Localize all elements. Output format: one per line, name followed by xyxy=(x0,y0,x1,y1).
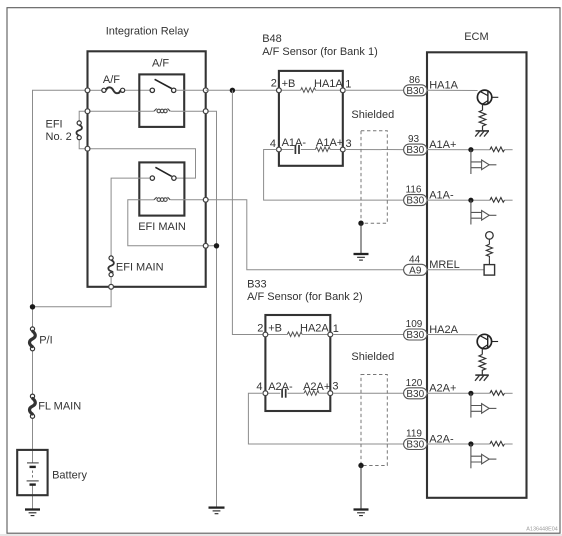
wire B48 pin1 to ECM 86 xyxy=(345,89,404,91)
terminal 120 B30 xyxy=(404,378,457,400)
buffer A2A+ xyxy=(471,393,497,417)
svg-text:B48: B48 xyxy=(262,33,282,45)
shield dashed box bank2 xyxy=(361,375,387,466)
wire A/F fuse row xyxy=(88,89,102,91)
ECM A2A- input wire xyxy=(427,443,490,445)
svg-text:B30: B30 xyxy=(406,145,424,156)
coil EFI MAIN relay xyxy=(154,197,170,201)
svg-text:4: 4 xyxy=(270,138,276,150)
terminal 116 B30 xyxy=(404,185,454,207)
svg-text:+B: +B xyxy=(268,322,282,334)
fuse P/I xyxy=(29,327,35,351)
svg-text:A1A-: A1A- xyxy=(429,189,454,201)
junction A1A- dot xyxy=(468,198,473,203)
wire coil to ground drop xyxy=(206,111,217,246)
svg-text:109: 109 xyxy=(406,319,423,330)
wire B48 pin3 to ECM 93 xyxy=(345,149,404,151)
pin circles B33 xyxy=(263,332,268,337)
buffer A1A- xyxy=(471,200,497,224)
svg-text:HA2A: HA2A xyxy=(300,322,329,334)
bottom scan strip xyxy=(0,534,562,536)
fuse EFI No.2 branch xyxy=(79,111,87,121)
svg-text:B33: B33 xyxy=(247,278,267,290)
wire +B row to B48 pin2 xyxy=(206,89,277,91)
wire B33 pin1 to ECM 109 xyxy=(333,334,404,336)
terminal 109 B30 xyxy=(404,319,459,341)
svg-text:HA1A: HA1A xyxy=(314,78,343,90)
junction A1A+ dot xyxy=(468,147,473,152)
node circles on relay box edges xyxy=(85,88,90,93)
resistor A1A- xyxy=(490,198,505,203)
junction A2A+ dot xyxy=(468,391,473,396)
svg-text:B30: B30 xyxy=(406,86,424,97)
ECM A1A- input wire xyxy=(427,199,490,201)
terminal 119 B30 xyxy=(404,429,454,451)
wire switch to node xyxy=(176,89,206,91)
svg-text:B30: B30 xyxy=(406,440,424,451)
wire EFI MAIN coil row xyxy=(139,199,154,201)
svg-text:A/F Sensor (for Bank 2): A/F Sensor (for Bank 2) xyxy=(247,291,363,303)
wire FL MAIN to battery xyxy=(32,418,34,463)
resistor HA2A pulldown xyxy=(479,349,486,375)
junction battery node xyxy=(30,304,35,309)
capacitor B48 xyxy=(295,145,299,154)
resistor B48 sense xyxy=(315,147,330,152)
svg-text:A/F: A/F xyxy=(152,58,169,70)
svg-text:A1A+: A1A+ xyxy=(429,139,456,151)
svg-text:4: 4 xyxy=(256,381,262,393)
terminal 93 B30 xyxy=(404,134,457,156)
svg-text:3: 3 xyxy=(332,380,338,392)
junction shield1 dot xyxy=(358,221,363,226)
svg-text:A136448E04: A136448E04 xyxy=(526,526,558,532)
svg-text:A2A-: A2A- xyxy=(268,381,293,393)
wire MREL to driver xyxy=(427,269,484,271)
wire coil to MREL xyxy=(170,200,403,270)
wire shield2 to ground xyxy=(360,466,362,510)
MREL driver xyxy=(484,232,495,276)
ground battery xyxy=(25,510,40,516)
wire fuse to box edge xyxy=(110,277,112,287)
pin circles B48 xyxy=(277,88,282,93)
svg-text:P/I: P/I xyxy=(39,335,52,347)
ECM box xyxy=(427,52,527,498)
junction shield2 dot xyxy=(358,463,363,468)
wire relay coil row xyxy=(88,110,155,112)
terminal 44 A9 xyxy=(404,254,460,276)
svg-text:1: 1 xyxy=(345,78,351,90)
svg-text:3: 3 xyxy=(346,138,352,150)
svg-text:A1A+: A1A+ xyxy=(316,137,343,149)
svg-text:ECM: ECM xyxy=(464,31,488,43)
wire EFI MAIN fuse return to battery node xyxy=(33,287,112,307)
coil A/F relay xyxy=(154,109,170,113)
fuse FL MAIN xyxy=(29,394,35,418)
resistor B33 sense xyxy=(304,391,319,396)
svg-text:2: 2 xyxy=(257,322,263,334)
Integration Relay box xyxy=(88,51,206,286)
transistor HA2A xyxy=(477,334,498,348)
chassis ground HA2A xyxy=(475,375,489,381)
svg-text:Integration Relay: Integration Relay xyxy=(106,26,190,38)
svg-text:A/F Sensor (for Bank 1): A/F Sensor (for Bank 1) xyxy=(262,46,378,58)
svg-text:119: 119 xyxy=(406,429,422,440)
svg-text:EFI: EFI xyxy=(46,119,63,131)
svg-text:Shielded: Shielded xyxy=(351,351,394,363)
wire EFI No2 row to EFI MAIN switch xyxy=(88,149,196,178)
svg-text:Shielded: Shielded xyxy=(351,109,394,121)
svg-text:B30: B30 xyxy=(406,389,424,400)
fuse EFI MAIN xyxy=(108,256,113,277)
wire battery to ground xyxy=(32,484,34,509)
ECM HA1A driver wire xyxy=(427,89,478,91)
svg-text:1: 1 xyxy=(333,323,339,335)
svg-text:B30: B30 xyxy=(406,330,424,341)
resistor A1A+ xyxy=(490,147,505,152)
wire P/I to FL MAIN xyxy=(32,351,34,395)
ECM HA2A driver wire xyxy=(427,334,477,336)
fuse A/F xyxy=(102,87,125,93)
buffer A2A- xyxy=(471,444,497,468)
junction A2A- dot xyxy=(468,441,473,446)
svg-text:A1A-: A1A- xyxy=(282,137,307,149)
sensor B33 box xyxy=(265,315,330,411)
resistor A2A- xyxy=(490,441,505,446)
resistor HA1A pulldown xyxy=(479,105,486,131)
resistor A2A+ xyxy=(490,391,505,396)
chassis ground HA1A xyxy=(475,131,489,137)
ground relay return xyxy=(209,508,225,514)
ECM A2A+ input wire xyxy=(427,392,490,394)
svg-text:A/F: A/F xyxy=(103,74,120,86)
svg-text:2: 2 xyxy=(271,78,277,90)
wire shield1 to ground xyxy=(360,223,362,254)
svg-text:HA2A: HA2A xyxy=(429,324,458,336)
wire EFI MAIN switch to fuse xyxy=(111,178,150,256)
ECM A1A+ input wire xyxy=(427,149,490,151)
terminal 86 B30 xyxy=(404,75,459,97)
svg-text:EFI MAIN: EFI MAIN xyxy=(138,221,186,233)
junction +B dot xyxy=(230,88,235,93)
relay A/F xyxy=(139,74,184,127)
wire B48 pin4 to ECM 116 xyxy=(264,150,404,201)
wire battery feed riser xyxy=(33,90,88,327)
svg-text:Battery: Battery xyxy=(52,469,87,481)
svg-text:B30: B30 xyxy=(406,196,424,207)
wire B33 pin3 to ECM 120 xyxy=(333,392,404,394)
capacitor B33 xyxy=(282,389,286,398)
svg-text:HA1A: HA1A xyxy=(429,80,458,92)
svg-text:FL MAIN: FL MAIN xyxy=(38,401,81,413)
svg-text:+B: +B xyxy=(282,78,296,90)
transistor HA1A xyxy=(477,90,498,104)
svg-text:A9: A9 xyxy=(409,265,422,276)
wire B33 pin4 to ECM 119 xyxy=(248,393,403,444)
sensor B48 box xyxy=(279,71,343,166)
resistor B48 heater xyxy=(301,88,316,93)
svg-text:120: 120 xyxy=(406,378,423,389)
battery B1 xyxy=(17,450,47,495)
junction EFI MAIN return dot xyxy=(214,243,219,248)
resistor B33 heater xyxy=(287,332,302,337)
svg-text:86: 86 xyxy=(409,75,421,86)
ground shield2 xyxy=(354,510,369,516)
shield dashed box bank1 xyxy=(361,131,387,224)
svg-text:A2A+: A2A+ xyxy=(303,381,330,393)
wire ground drop xyxy=(216,246,218,508)
svg-text:No. 2: No. 2 xyxy=(46,131,72,143)
wire +B drop to B33 xyxy=(232,90,263,334)
relay EFI MAIN xyxy=(139,162,184,215)
ground shield1 xyxy=(354,254,369,260)
svg-text:EFI MAIN: EFI MAIN xyxy=(116,261,164,273)
buffer A1A+ xyxy=(471,150,497,174)
